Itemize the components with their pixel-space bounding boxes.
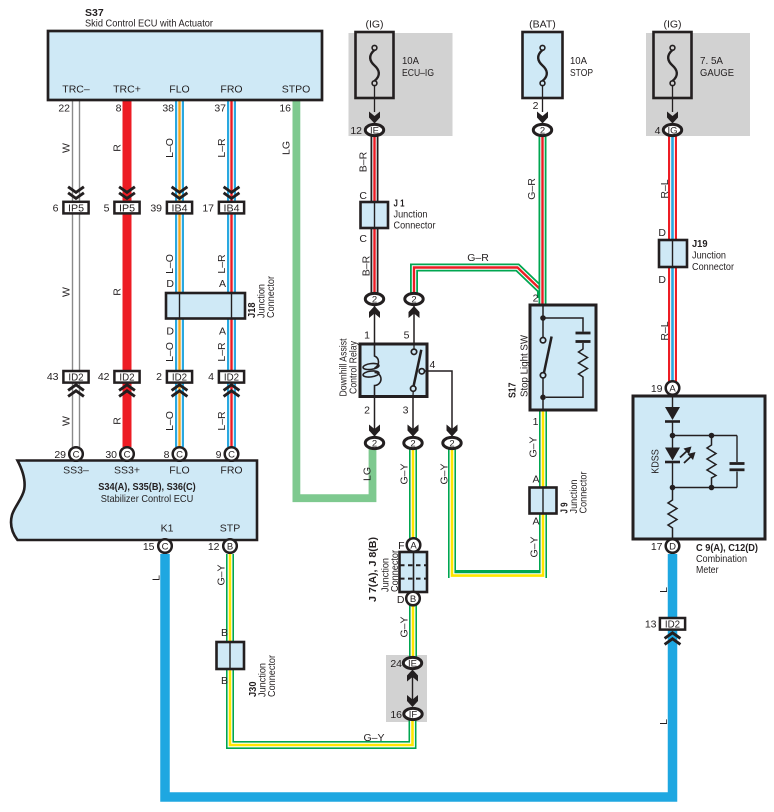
chevron arrows below ID2 pin43: [68, 385, 84, 397]
connector ID2 pin4 box: [219, 371, 244, 383]
wire G-Y from ECU STP to terminal IF via J30: [230, 554, 413, 745]
arrow down into relay pin2 terminal: [369, 425, 380, 437]
svg-text:S34(A), S35(B), S36(C): S34(A), S35(B), S36(C): [98, 481, 196, 493]
label wire W lower: [61, 416, 73, 426]
label S37 title: [85, 7, 213, 30]
connector IP5 pin5 box: [114, 202, 139, 214]
svg-text:Stabilizer Control ECU: Stabilizer Control ECU: [101, 493, 194, 505]
svg-text:C: C: [124, 450, 131, 461]
svg-text:TRC–: TRC–: [62, 84, 90, 96]
label B above J30: [221, 627, 228, 639]
terminal circle B at J8: [406, 592, 420, 606]
terminal circle A at J7: [407, 538, 421, 552]
fuse element GAUGE: [668, 45, 677, 112]
svg-text:FRO: FRO: [220, 465, 242, 477]
label ID2 pin13 name: [665, 618, 680, 630]
junction connector J1 box: [361, 202, 389, 228]
relay box Downhill Assist Control Relay: [360, 344, 427, 397]
svg-text:L–O: L–O: [164, 342, 176, 362]
svg-text:A: A: [410, 541, 417, 552]
svg-text:12: 12: [208, 541, 220, 553]
label wire W upper: [61, 143, 73, 153]
svg-text:2: 2: [156, 371, 162, 383]
label pin 12 at IE: [350, 125, 362, 137]
svg-text:A: A: [532, 516, 539, 528]
svg-text:19: 19: [651, 383, 663, 395]
label wire L-R upper: [216, 138, 228, 158]
label A below J9: [532, 516, 539, 528]
label wire G-Y below J9: [529, 536, 541, 557]
chevron arrows into IP5 pin5: [119, 187, 135, 199]
svg-text:C: C: [228, 450, 235, 461]
svg-text:G–Y: G–Y: [363, 732, 384, 744]
relay pin2 lead wire: [374, 396, 376, 437]
svg-text:C: C: [162, 542, 169, 553]
svg-text:16: 16: [279, 103, 291, 115]
svg-text:IP5: IP5: [119, 202, 135, 214]
svg-text:J19: J19: [692, 238, 708, 250]
wire L-O from S37 FLO to ECU FLO: [175, 100, 184, 447]
svg-text:Connector: Connector: [389, 550, 401, 592]
terminal oval 2 relay pin5: [405, 293, 423, 305]
label fuse ECU-IG rating: [402, 55, 434, 79]
wire LG from S37 STPO to relay pin2 terminal: [296, 100, 372, 498]
svg-text:B: B: [221, 675, 228, 687]
svg-text:SS3+: SS3+: [114, 465, 140, 477]
terminal oval 2 relay pin4: [443, 437, 461, 449]
svg-text:Connector: Connector: [692, 261, 734, 273]
svg-text:Control Relay: Control Relay: [348, 340, 360, 394]
terminal circle C pin29: [69, 447, 83, 461]
combination meter internal wire top: [672, 396, 674, 407]
label ECU pin names top: [63, 465, 242, 477]
label wire L-O lower: [164, 411, 176, 431]
label G-R horizontal: [467, 252, 489, 264]
wire G-R from fuse STOP to S17 pin2: [539, 133, 547, 306]
label S17 Stop Light SW: [507, 335, 531, 398]
svg-text:IG: IG: [667, 126, 677, 137]
svg-text:Connector: Connector: [266, 655, 278, 697]
chevron arrows below ID2 pin2: [172, 385, 188, 397]
svg-text:2: 2: [372, 439, 377, 450]
svg-text:C: C: [359, 233, 367, 245]
svg-text:G–Y: G–Y: [529, 536, 541, 557]
svg-text:L–R: L–R: [216, 254, 228, 274]
label wire R mid: [112, 288, 124, 296]
svg-text:C: C: [176, 450, 183, 461]
label ID2 numbers: [47, 371, 214, 383]
svg-text:G–Y: G–Y: [439, 463, 451, 484]
svg-text:8: 8: [116, 103, 122, 115]
switch box S17 Stop Light SW: [530, 305, 596, 410]
junction connector J7 J8 box: [400, 552, 428, 592]
connector ID2 pin13 box: [660, 618, 685, 630]
label wire L-R below J18: [216, 342, 228, 362]
svg-text:R: R: [112, 417, 124, 425]
label wire LG: [281, 141, 293, 155]
svg-text:GAUGE: GAUGE: [700, 67, 734, 79]
svg-text:TRC+: TRC+: [113, 84, 141, 96]
svg-text:L–R: L–R: [216, 411, 228, 431]
fuse box ECU-IG: [356, 32, 394, 98]
label D above J19: [658, 227, 666, 239]
svg-text:W: W: [61, 416, 73, 426]
chevron arrows below ID2 pin4: [224, 385, 240, 397]
svg-text:D: D: [658, 227, 666, 239]
connector ID2 pin43 box: [63, 371, 88, 383]
svg-text:B: B: [227, 542, 233, 553]
junction connector J9 box: [530, 488, 557, 514]
svg-text:10A: 10A: [570, 55, 587, 67]
terminal circle D pin17 meter: [666, 539, 680, 553]
svg-text:L–O: L–O: [164, 411, 176, 431]
label ID2 names: [68, 371, 239, 383]
svg-text:D: D: [397, 594, 405, 606]
svg-text:17: 17: [202, 203, 214, 215]
svg-text:G–Y: G–Y: [528, 436, 540, 457]
chevron arrows below ID2 pin42: [119, 385, 135, 397]
svg-text:IF: IF: [409, 710, 418, 721]
svg-text:IB4: IB4: [172, 202, 188, 214]
svg-text:STOP: STOP: [570, 67, 593, 79]
chevron arrows below ID2 pin13: [665, 633, 681, 645]
label wire G-Y below ECU: [216, 564, 228, 585]
label D below J19: [658, 274, 666, 286]
svg-text:R–L: R–L: [659, 179, 671, 198]
svg-text:9: 9: [216, 449, 222, 461]
label J18: [246, 276, 277, 318]
label D above J18: [166, 278, 174, 290]
chevron arrows into IB4 pin17: [224, 187, 240, 199]
S17 switch internals: [540, 305, 551, 410]
terminal oval IE pin24: [403, 657, 421, 669]
svg-text:Connector: Connector: [265, 276, 277, 318]
svg-text:R–L: R–L: [659, 321, 671, 340]
label F at J7: [398, 540, 404, 552]
svg-text:KDSS: KDSS: [650, 449, 662, 474]
label D at J8: [397, 594, 405, 606]
terminal circle C pin8: [173, 447, 187, 461]
label wire L-O below J18: [164, 342, 176, 362]
svg-text:LG: LG: [362, 467, 374, 481]
svg-text:10A: 10A: [402, 55, 419, 67]
svg-text:L: L: [658, 719, 670, 725]
terminal oval 2 at STOP fuse: [533, 124, 551, 136]
svg-text:ID2: ID2: [172, 371, 187, 383]
svg-text:C: C: [73, 450, 80, 461]
svg-text:FRO: FRO: [220, 84, 242, 96]
svg-text:IE: IE: [408, 659, 417, 670]
label wire B-R: [358, 151, 370, 172]
label Downhill Assist Control Relay: [338, 338, 360, 396]
label J9: [559, 471, 590, 513]
svg-text:2: 2: [410, 439, 415, 450]
svg-text:W: W: [61, 287, 73, 297]
wire R-L from fuse GAUGE to combination meter pin19: [668, 133, 677, 382]
label fuse headers: [365, 19, 681, 31]
svg-text:SS3–: SS3–: [63, 465, 89, 477]
label combination meter title: [696, 542, 758, 576]
resistor in meter series: [668, 488, 677, 540]
svg-text:S17: S17: [507, 382, 519, 398]
diode D1: [665, 407, 680, 436]
label ECU title: [98, 481, 196, 505]
relay switch: [411, 344, 425, 396]
junction connector J30 box: [217, 642, 245, 669]
label J19: [692, 238, 734, 273]
label pin 19 at meter: [651, 383, 663, 395]
node top junction: [670, 433, 737, 439]
label wire L-R lower: [216, 411, 228, 431]
terminal oval IE pin12: [365, 124, 383, 136]
svg-text:K1: K1: [161, 523, 174, 535]
svg-text:B–R: B–R: [361, 255, 373, 276]
TERMINALS: [69, 124, 682, 720]
svg-text:(IG): (IG): [663, 19, 681, 31]
svg-text:2: 2: [540, 126, 545, 137]
svg-text:38: 38: [162, 103, 174, 115]
svg-text:15: 15: [143, 541, 155, 553]
BOXES: [11, 31, 765, 669]
connector ID2 pin2 box: [167, 371, 192, 383]
fuse element ECU-IG: [370, 45, 379, 112]
label A below J18: [219, 326, 226, 338]
S17 capacitor and resistor branch: [543, 318, 591, 397]
svg-text:L: L: [658, 587, 670, 593]
label G-Y horizontal bottom: [363, 732, 384, 744]
label ECU pin numbers bottom: [143, 541, 220, 553]
label wire G-Y relay pin3: [399, 463, 411, 484]
terminal oval IF pin16: [404, 708, 422, 720]
svg-text:5: 5: [404, 330, 410, 342]
svg-text:B: B: [410, 594, 416, 605]
svg-text:J 7(A), J 8(B): J 7(A), J 8(B): [367, 537, 379, 602]
svg-text:2: 2: [411, 295, 416, 306]
wire R from S37 TRC+ to ECU SS3+: [123, 100, 132, 447]
terminal circle B pin12: [223, 539, 237, 553]
label wire L right lower: [658, 719, 670, 725]
gray background ECU-IG fuse: [349, 33, 453, 136]
ECU S37 box: [48, 31, 322, 100]
arrow up into relay pin5 terminal: [409, 306, 420, 318]
svg-text:L: L: [151, 575, 163, 581]
svg-text:A: A: [532, 474, 539, 486]
capacitor in meter: [730, 436, 745, 488]
label C below J1: [359, 233, 367, 245]
svg-text:ID2: ID2: [68, 371, 83, 383]
svg-text:3: 3: [403, 405, 409, 417]
svg-text:D: D: [658, 274, 666, 286]
label S37 pin numbers: [58, 103, 291, 115]
svg-text:G–R: G–R: [467, 252, 489, 264]
relay pin4 lead wire: [425, 371, 453, 437]
svg-text:37: 37: [214, 103, 226, 115]
svg-text:L–R: L–R: [216, 138, 228, 158]
label ECU pin numbers top: [54, 449, 221, 461]
node bottom junction: [670, 485, 737, 491]
svg-text:29: 29: [54, 449, 66, 461]
svg-text:2: 2: [449, 439, 454, 450]
arrow down into terminal IE: [369, 112, 380, 124]
svg-text:R: R: [112, 144, 124, 152]
arrow down into relay pin4 terminal: [447, 425, 458, 437]
svg-text:43: 43: [47, 371, 59, 383]
svg-text:ID2: ID2: [665, 618, 680, 630]
label B below J30: [221, 675, 228, 687]
connector ID2 pin42 box: [114, 371, 139, 383]
label D below J18: [166, 326, 174, 338]
svg-text:A: A: [219, 278, 226, 290]
label pin 16 at IF: [390, 709, 402, 721]
svg-text:30: 30: [105, 449, 117, 461]
svg-text:G–Y: G–Y: [399, 463, 411, 484]
label wire B-R lower: [361, 255, 373, 276]
svg-text:24: 24: [390, 658, 402, 670]
junction connector J18 box: [166, 293, 245, 319]
label S37 pin names: [62, 84, 310, 96]
svg-text:ID2: ID2: [119, 371, 134, 383]
relay pin3 lead wire: [412, 396, 414, 437]
svg-text:(IG): (IG): [365, 19, 383, 31]
terminal circle A pin19 meter: [666, 381, 680, 395]
connector IP5 pin6 box: [63, 202, 88, 214]
label wire G-R vertical: [526, 178, 538, 200]
svg-text:STPO: STPO: [282, 84, 311, 96]
fuse element STOP: [538, 45, 547, 112]
svg-text:G–Y: G–Y: [216, 564, 228, 585]
label wire G-Y below J8: [399, 616, 411, 637]
svg-text:L–O: L–O: [164, 138, 176, 158]
label A above J9: [532, 474, 539, 486]
wire L-R from S37 FRO to ECU FRO: [227, 100, 236, 447]
label pin 24 at IE: [390, 658, 402, 670]
svg-text:2: 2: [364, 405, 370, 417]
chevron arrows into IB4 pin39: [172, 187, 188, 199]
svg-text:Skid Control ECU with Actuator: Skid Control ECU with Actuator: [85, 18, 213, 30]
svg-text:Meter: Meter: [696, 564, 719, 576]
label wire G-Y relay pin4: [439, 463, 451, 484]
svg-text:R: R: [112, 288, 124, 296]
svg-text:39: 39: [150, 203, 162, 215]
ECU S34 S35 S36 box with torn edge: [11, 461, 257, 541]
svg-text:Connector: Connector: [578, 471, 590, 513]
svg-text:7. 5A: 7. 5A: [700, 55, 723, 67]
wire L from ECU K1 to combination meter pin17: [165, 554, 673, 797]
label fuse GAUGE rating: [700, 55, 734, 79]
fuse box GAUGE: [654, 32, 692, 98]
svg-text:FLO: FLO: [169, 84, 189, 96]
svg-text:4: 4: [208, 371, 214, 383]
svg-text:42: 42: [98, 371, 110, 383]
svg-text:IP5: IP5: [68, 202, 84, 214]
svg-text:LG: LG: [281, 141, 293, 155]
svg-text:STP: STP: [220, 523, 240, 535]
junction connector J19 box: [659, 240, 687, 267]
label KDSS: [650, 449, 662, 474]
resistor in meter parallel: [707, 433, 716, 491]
terminal oval IG pin4: [663, 124, 681, 136]
svg-text:(BAT): (BAT): [529, 19, 556, 31]
connector IB4 pin39 box: [167, 202, 192, 214]
svg-text:4: 4: [430, 359, 436, 371]
svg-text:2: 2: [533, 100, 539, 112]
svg-text:5: 5: [104, 203, 110, 215]
svg-text:13: 13: [645, 619, 657, 631]
svg-text:17: 17: [651, 541, 663, 553]
svg-text:2: 2: [372, 295, 377, 306]
svg-text:Connector: Connector: [394, 220, 436, 232]
label pin 17 at meter: [651, 541, 663, 553]
svg-text:D: D: [669, 542, 676, 553]
terminal oval 2 relay pin2: [365, 437, 383, 449]
label pin 4 at IG: [655, 125, 661, 137]
label ECU pin names bottom: [161, 523, 241, 535]
wire W from S37 TRC- to ECU SS3-: [73, 100, 80, 447]
terminal circle C pin30: [120, 447, 134, 461]
svg-text:A: A: [669, 384, 676, 395]
label wire L left: [151, 575, 163, 581]
relay pin5 lead wire: [413, 305, 415, 344]
label wire L-O upper: [164, 138, 176, 158]
arrow down into terminal IG: [667, 112, 678, 124]
label pin 1 at S17: [533, 416, 539, 428]
connector IB4 pin17 box: [219, 202, 244, 214]
svg-text:12: 12: [350, 125, 362, 137]
label J1: [394, 198, 436, 232]
label fuse STOP rating: [570, 55, 593, 79]
svg-text:W: W: [61, 143, 73, 153]
label connector numbers IP5 IB4: [53, 203, 214, 215]
svg-text:C: C: [359, 190, 367, 202]
label C above J1: [359, 190, 367, 202]
terminal circle C pin9: [225, 447, 239, 461]
svg-text:2: 2: [533, 293, 539, 305]
terminal oval 2 relay pin3: [404, 437, 422, 449]
svg-text:ID2: ID2: [224, 371, 239, 383]
label pin 2 at STOP fuse: [533, 100, 539, 112]
label wire L-R above J18: [216, 254, 228, 274]
label wire L right upper: [658, 587, 670, 593]
label pin 13 at ID2: [645, 619, 657, 631]
svg-text:B: B: [221, 627, 228, 639]
label relay pins: [364, 330, 435, 417]
wire G-Y from relay pin4 terminal to S17 pin1 via J9: [452, 410, 543, 576]
svg-text:D: D: [166, 326, 174, 338]
label wire R-L lower: [659, 321, 671, 340]
LED KDSS: [665, 436, 696, 488]
wire G-Y from relay pin3 terminal to J7 connector A: [409, 448, 417, 539]
svg-text:D: D: [166, 278, 174, 290]
label wire R lower: [112, 417, 124, 425]
double arrow between IE and IF: [407, 670, 418, 708]
svg-text:22: 22: [58, 103, 70, 115]
svg-text:IB4: IB4: [224, 202, 240, 214]
relay coil: [363, 344, 381, 396]
label connector names IP5 IB4: [68, 202, 240, 214]
svg-text:Junction: Junction: [692, 250, 726, 262]
svg-text:L–O: L–O: [164, 254, 176, 274]
terminal oval 2 relay pin1: [365, 293, 383, 305]
wire G-Y from J7 connector B to terminal IE: [409, 605, 417, 660]
gray background GAUGE fuse: [646, 33, 750, 136]
svg-text:A: A: [219, 326, 226, 338]
label wire LG at relay: [362, 467, 374, 481]
arrow down into relay pin3 terminal: [408, 425, 419, 437]
wire G-R branch from relay pin5 terminal to S17 pin2: [414, 268, 541, 299]
label wire R-L: [659, 179, 671, 198]
label wire R upper: [112, 144, 124, 152]
svg-text:1: 1: [364, 330, 370, 342]
